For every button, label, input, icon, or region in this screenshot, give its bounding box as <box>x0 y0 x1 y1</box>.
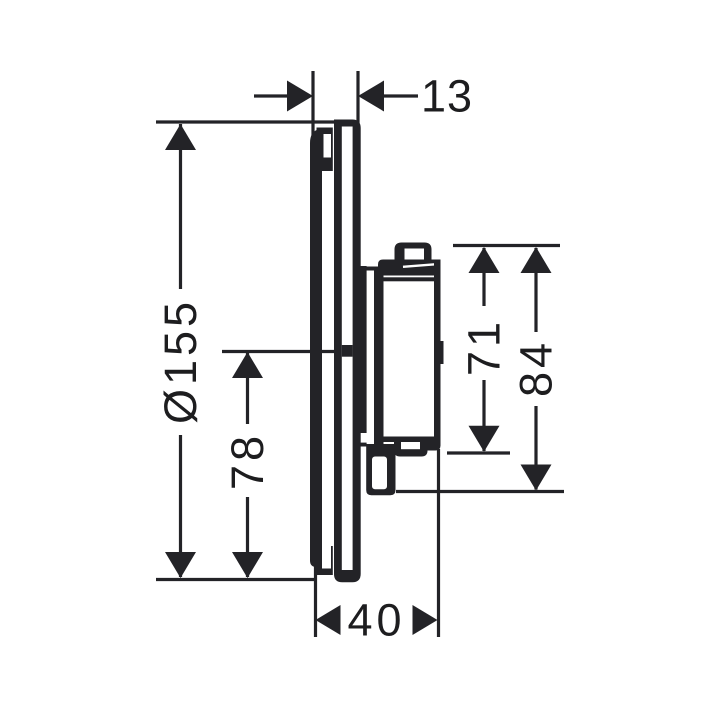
svg-text:78: 78 <box>222 432 273 490</box>
valve body top edge <box>384 277 435 281</box>
dimension line 84 <box>534 248 537 490</box>
extension line 40 left <box>314 564 317 637</box>
dimension line D155 <box>179 124 182 577</box>
extension line 78 center <box>222 350 361 353</box>
dimension line 13 <box>254 94 290 97</box>
dimension line 78 <box>246 352 249 577</box>
svg-text:13: 13 <box>421 71 473 122</box>
arrow D155 up <box>165 124 196 150</box>
valve body right wall <box>434 260 441 443</box>
arrow 71 up <box>469 247 500 273</box>
valve connector line <box>361 267 379 271</box>
arrow 40 left <box>316 605 341 635</box>
front plate <box>334 120 361 583</box>
valve bottom knob <box>394 442 428 457</box>
valve body bottom edge <box>384 437 436 443</box>
valve neck bridge <box>361 443 367 447</box>
svg-text:40: 40 <box>347 595 405 646</box>
arrow 13 left <box>287 81 313 112</box>
extension line D155/78 bottom <box>156 578 316 581</box>
arrow 84 down <box>521 465 552 491</box>
arrow 71 down <box>469 426 500 452</box>
valve supply stub <box>366 444 395 495</box>
rear escutcheon wall <box>310 130 322 568</box>
arrow D155 down <box>165 552 196 578</box>
arrow 84 up <box>521 247 552 273</box>
valve top knob <box>395 243 432 263</box>
valve neck line <box>361 266 367 433</box>
extension line 71/84 top <box>453 244 560 247</box>
extension line D155 top <box>156 120 337 123</box>
rear escutcheon top flange <box>317 128 333 172</box>
arrow 13 right <box>358 81 384 112</box>
extension line 84 bottom <box>396 490 564 493</box>
svg-text:84: 84 <box>511 339 562 397</box>
extension line 13 right <box>356 71 359 123</box>
valve top cap <box>378 260 441 276</box>
extension line 40 right <box>437 449 440 637</box>
centerline tick through plate <box>342 345 353 357</box>
valve right bump <box>440 341 443 364</box>
valve body left wall <box>374 270 384 448</box>
extension line 71 bottom <box>447 451 510 454</box>
arrow 78 up <box>232 352 263 378</box>
dimension line 71 <box>482 248 485 451</box>
svg-text:71: 71 <box>459 318 510 376</box>
svg-text:Ø155: Ø155 <box>155 298 206 424</box>
rear escutcheon bottom flange <box>317 546 333 575</box>
arrow 78 down <box>232 552 263 578</box>
arrow 40 right <box>413 605 438 635</box>
extension line 13 left <box>311 71 314 140</box>
valve bottom cap right part <box>428 442 441 451</box>
